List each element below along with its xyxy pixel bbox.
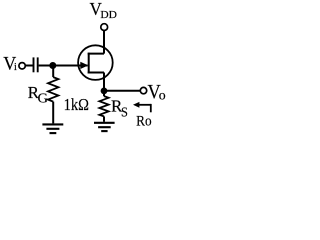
svg-text:1kΩ: 1kΩ	[64, 95, 89, 114]
svg-text:DD: DD	[100, 10, 117, 21]
svg-text:i: i	[14, 62, 17, 73]
svg-text:G: G	[38, 92, 49, 107]
svg-text:Ro: Ro	[136, 113, 152, 129]
svg-text:o: o	[159, 88, 166, 103]
svg-text:S: S	[121, 106, 128, 121]
